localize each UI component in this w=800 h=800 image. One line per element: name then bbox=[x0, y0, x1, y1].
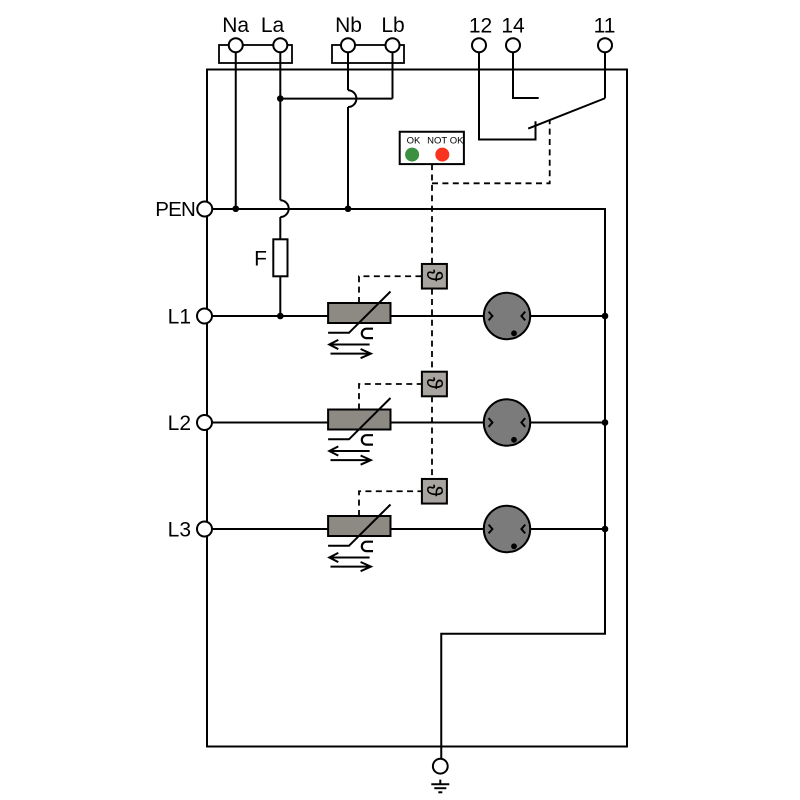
svg-text:L3: L3 bbox=[168, 519, 191, 542]
wire Nb lower to PEN bbox=[347, 107, 349, 209]
dashed link LED to disconnectors bbox=[431, 164, 433, 264]
terminal PEN bbox=[197, 202, 212, 217]
spark gap F1 bbox=[484, 293, 530, 339]
dashed link to switch bbox=[432, 120, 550, 183]
wire hop Nb over link bbox=[348, 90, 356, 107]
terminal Lb bbox=[386, 38, 400, 52]
svg-text:F: F bbox=[254, 248, 267, 271]
svg-text:Na: Na bbox=[222, 14, 249, 37]
terminal La bbox=[273, 38, 287, 52]
wire fuse to L1 bbox=[279, 276, 281, 316]
terminal ground bbox=[433, 759, 448, 774]
wire Nb upper bbox=[347, 48, 349, 90]
LED green bbox=[405, 148, 419, 162]
dashed link MOV2 to T2 bbox=[359, 384, 422, 410]
enclosure outline bbox=[207, 70, 627, 747]
spark gap F2 bbox=[484, 399, 530, 445]
svg-text:NOT OK: NOT OK bbox=[427, 135, 464, 146]
terminal 12 bbox=[472, 38, 486, 52]
wire line L1 bbox=[212, 315, 606, 317]
wire contact 11 bbox=[604, 48, 606, 98]
svg-text:ϑ: ϑ bbox=[422, 377, 447, 389]
junction dot La link bbox=[277, 95, 284, 102]
LED red bbox=[435, 148, 449, 162]
wire La down to hop bbox=[279, 48, 281, 200]
switch lever 11-12 bbox=[528, 98, 605, 128]
svg-text:11: 11 bbox=[594, 15, 616, 38]
LED indicator box bbox=[400, 132, 464, 164]
svg-text:Nb: Nb bbox=[335, 14, 362, 37]
wire Na to PEN bbox=[235, 48, 237, 209]
svg-text:ϑ: ϑ bbox=[422, 484, 447, 496]
fuse F bbox=[273, 239, 287, 276]
junction dot Na-PEN bbox=[232, 205, 239, 212]
svg-text:14: 14 bbox=[501, 15, 525, 38]
junction dot bus L1 bbox=[602, 313, 609, 320]
terminal block Na/La bbox=[219, 45, 292, 63]
terminal 14 bbox=[506, 38, 520, 52]
svg-text:OK: OK bbox=[407, 135, 421, 146]
svg-text:12: 12 bbox=[469, 15, 492, 38]
varistor MOV3 bbox=[328, 505, 390, 572]
varistor MOV2 bbox=[328, 398, 390, 465]
thermal disconnector T1 bbox=[422, 264, 447, 289]
terminal L3 bbox=[197, 522, 212, 537]
wire contact 14 bbox=[513, 48, 539, 98]
wire La-Lb link bbox=[280, 98, 392, 100]
junction dot bus L2 bbox=[602, 419, 609, 426]
ground symbol bbox=[431, 780, 449, 793]
dashed link MOV1 to T1 bbox=[359, 276, 422, 303]
svg-text:ϑ: ϑ bbox=[422, 269, 447, 281]
svg-text:PEN: PEN bbox=[155, 198, 195, 221]
wire hop bottom to fuse bbox=[279, 217, 281, 239]
terminal Na bbox=[229, 38, 243, 52]
terminal L2 bbox=[197, 415, 212, 430]
junction dot bus L3 bbox=[602, 526, 609, 533]
thermal disconnector T3 bbox=[422, 479, 447, 504]
spark gap F3 bbox=[484, 506, 530, 552]
dashed link T1 to T2 bbox=[431, 289, 433, 372]
dashed link T2 to T3 bbox=[431, 396, 433, 479]
PEN bus wire bbox=[212, 209, 605, 759]
thermal disconnector T2 bbox=[422, 372, 447, 397]
svg-text:L1: L1 bbox=[168, 306, 191, 329]
terminal Nb bbox=[341, 38, 355, 52]
terminal L1 bbox=[197, 309, 212, 324]
terminal block Nb/Lb bbox=[332, 45, 404, 63]
wire Lb bbox=[392, 48, 394, 99]
wire line L3 bbox=[212, 528, 606, 530]
svg-text:La: La bbox=[261, 14, 285, 37]
varistor MOV1 bbox=[328, 292, 390, 359]
dashed link MOV3 to T3 bbox=[359, 491, 422, 516]
junction dot Nb-PEN bbox=[345, 205, 352, 212]
terminal 11 bbox=[598, 38, 612, 52]
svg-text:L2: L2 bbox=[168, 412, 191, 435]
wire hop La over PEN bbox=[280, 200, 288, 217]
svg-text:Lb: Lb bbox=[381, 14, 404, 37]
wire contact 12 bbox=[479, 48, 536, 140]
junction dot fuse-L1 bbox=[277, 313, 284, 320]
wire line L2 bbox=[212, 422, 606, 424]
